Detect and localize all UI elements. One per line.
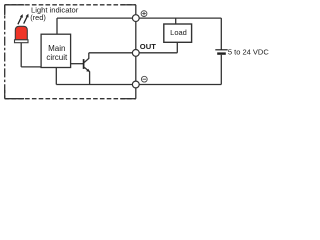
sensor enclosure dash-dot border: bottom xyxy=(5,98,136,100)
wire: LED lead down xyxy=(20,43,22,67)
light emission arrow 1 xyxy=(18,14,23,24)
wire: 0V rail (internal + external to battery) xyxy=(56,84,221,86)
main circuit box xyxy=(41,34,71,67)
sensor enclosure dash-dot border: top xyxy=(5,4,136,6)
battery positive plate (long) xyxy=(215,49,227,51)
LED lamp dome (red) xyxy=(15,26,27,40)
wire: LED to main circuit xyxy=(21,66,41,68)
terminal circle: OUT xyxy=(132,50,139,57)
terminal circle: +V xyxy=(132,15,139,22)
battery negative plate (short thick) xyxy=(217,52,226,54)
wire: collector up to OUT line xyxy=(88,53,90,59)
sensor enclosure dash-dot border: left xyxy=(4,5,6,99)
terminal circle: 0V xyxy=(132,81,139,88)
load box xyxy=(164,24,192,42)
wire: battery bottom lead xyxy=(220,55,222,85)
polarity symbol: circled minus xyxy=(141,76,147,82)
wire: OUT line (collector to load drop) xyxy=(89,52,178,54)
wire: load bottom drop to OUT line xyxy=(176,42,178,53)
svg-text:circuit: circuit xyxy=(46,53,68,62)
svg-text:Main: Main xyxy=(48,44,65,53)
transistor Q1 (NPN): base bar xyxy=(83,59,85,69)
wire: main circuit top to +V rail xyxy=(56,18,58,34)
svg-text:(red): (red) xyxy=(30,13,46,22)
sensor right boundary (solid, carries terminals) xyxy=(135,5,137,99)
transistor Q1: emitter diagonal with arrow xyxy=(84,67,90,72)
svg-text:5 to 24 VDC: 5 to 24 VDC xyxy=(228,47,269,56)
wire: emitter down to 0V rail xyxy=(89,71,91,84)
polarity symbol: circled plus xyxy=(141,11,147,17)
wire: battery top lead xyxy=(220,18,222,50)
wire: main circuit bottom down to 0V rail xyxy=(55,68,57,85)
light emission arrow 2 xyxy=(24,14,29,24)
transistor Q1: collector diagonal xyxy=(84,58,89,62)
wire: base drive line from main circuit right edge xyxy=(71,63,84,65)
wire: load top drop from +V rail xyxy=(175,18,177,24)
svg-text:Load: Load xyxy=(170,28,187,37)
wire: +V rail (internal + external to battery) xyxy=(57,17,221,19)
svg-text:OUT: OUT xyxy=(140,42,156,51)
LED lamp base xyxy=(15,40,29,43)
